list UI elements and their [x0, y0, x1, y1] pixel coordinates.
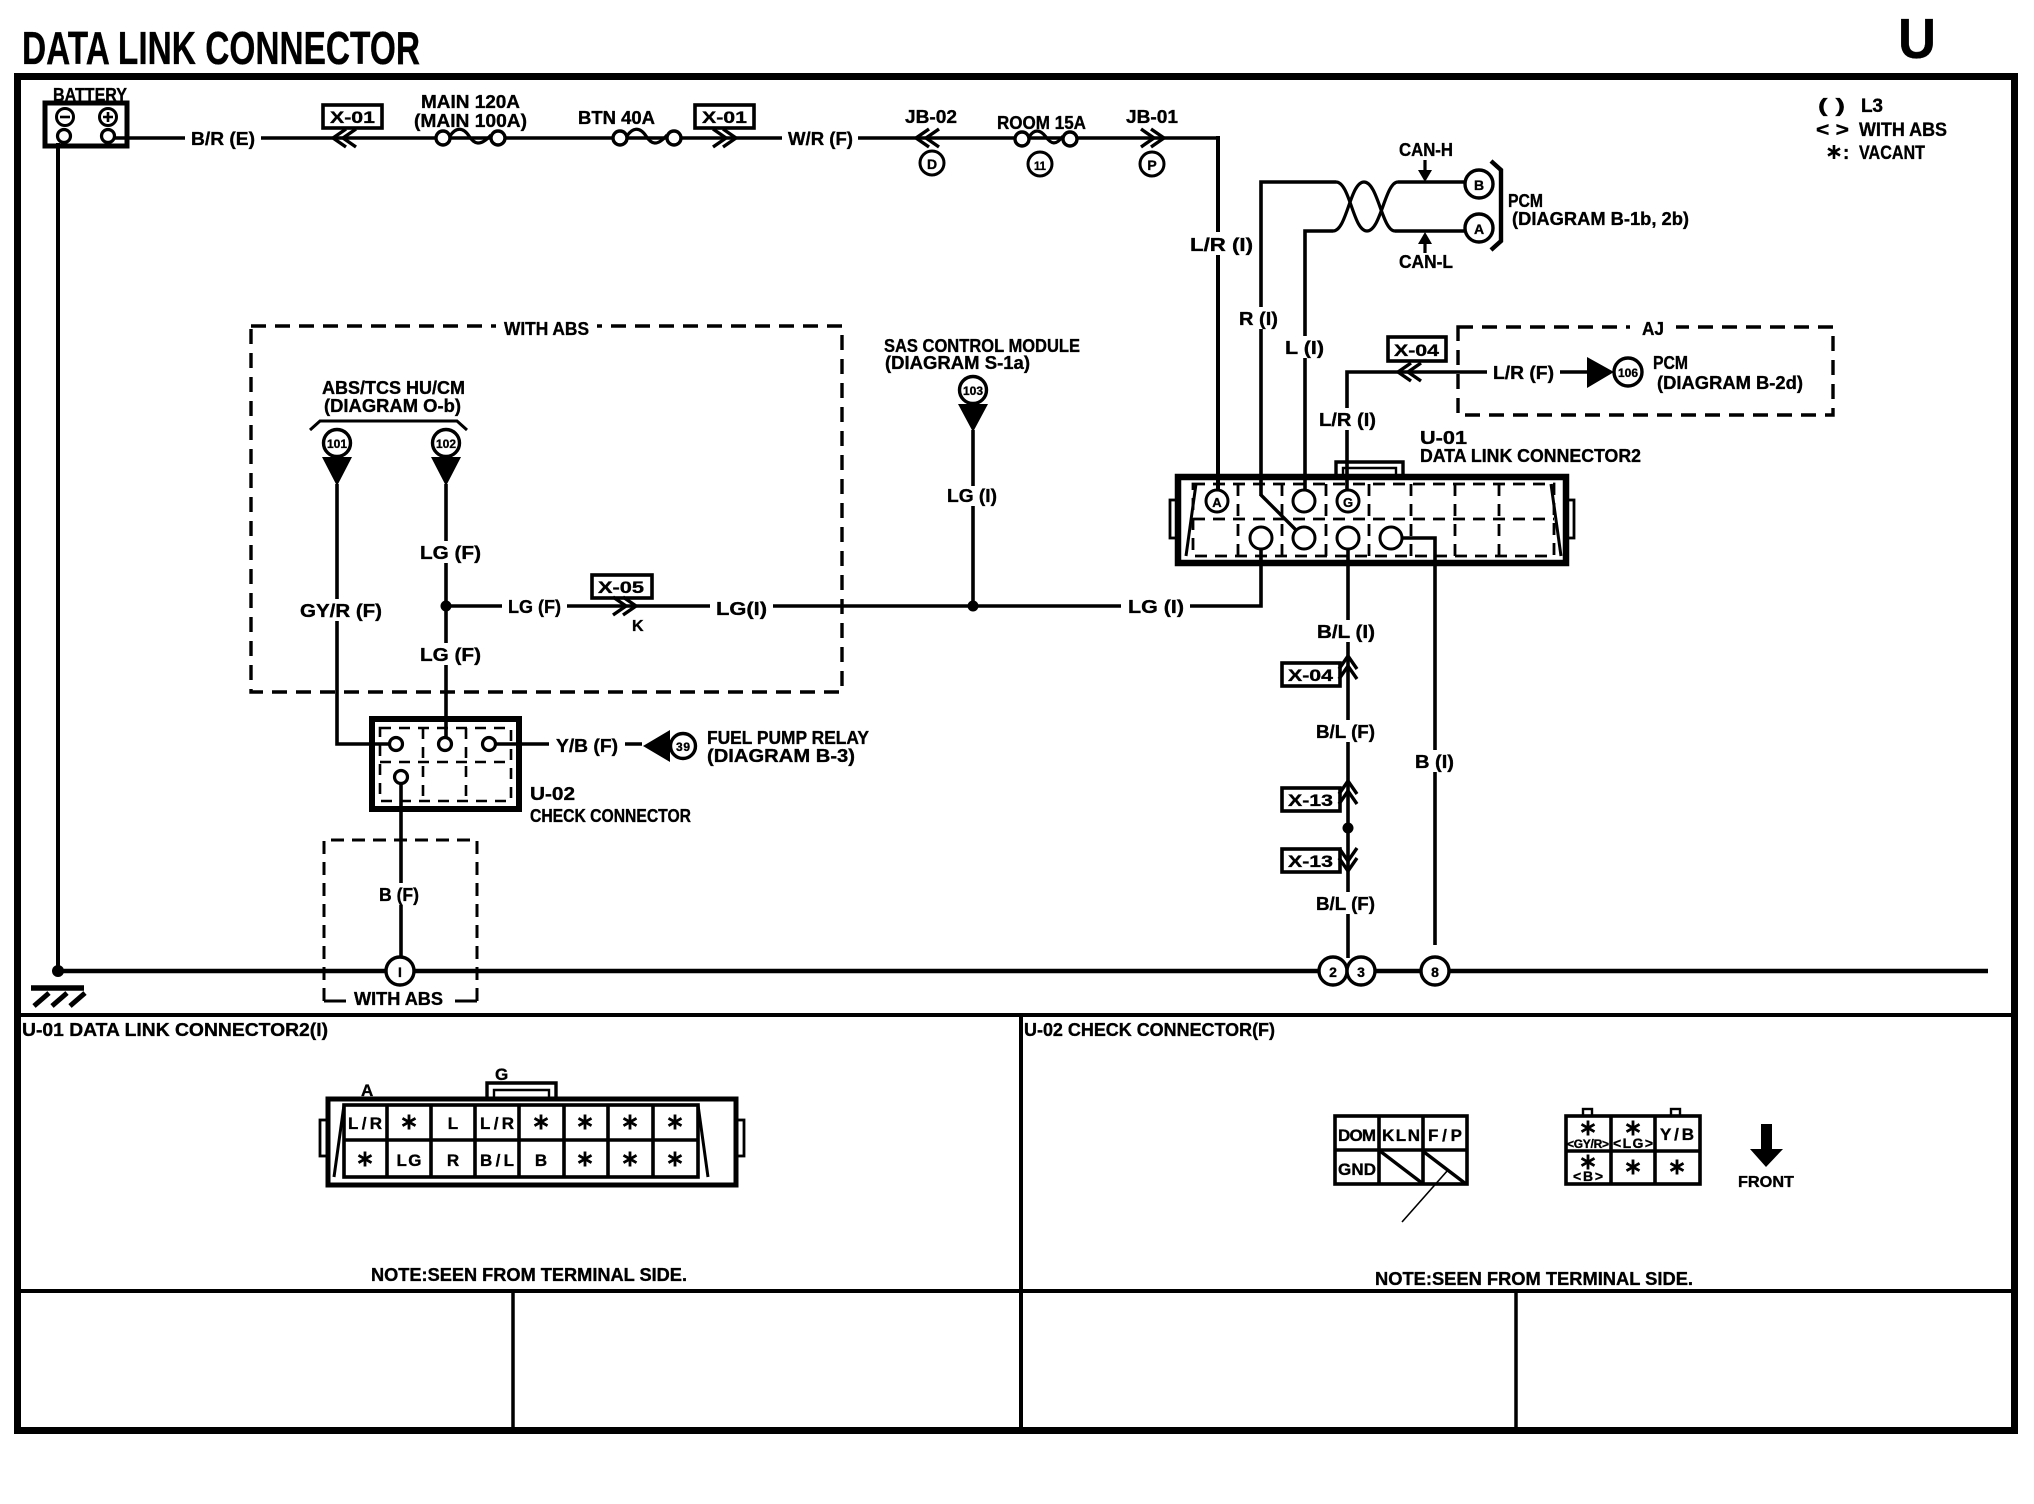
svg-text:X-01: X-01	[330, 108, 375, 127]
pin row1 c3	[1293, 490, 1315, 512]
terminal 2 ground	[1319, 957, 1347, 985]
svg-text:< >: < >	[1816, 120, 1849, 141]
svg-text:LG (F): LG (F)	[420, 543, 481, 563]
svg-text:DATA LINK CONNECTOR2: DATA LINK CONNECTOR2	[1420, 446, 1641, 466]
svg-text:LG (I): LG (I)	[1128, 597, 1184, 617]
svg-text:(DIAGRAM B-3): (DIAGRAM B-3)	[707, 746, 855, 766]
svg-text:AJ: AJ	[1642, 319, 1664, 339]
svg-text:JB-02: JB-02	[905, 107, 957, 127]
wire LG vertical	[444, 484, 448, 740]
svg-text:R (I): R (I)	[1239, 309, 1278, 329]
svg-text:LG (I): LG (I)	[947, 486, 997, 506]
svg-text:U-02: U-02	[530, 784, 575, 804]
bottom strip divider right	[1514, 1291, 1518, 1430]
svg-text:WITH ABS: WITH ABS	[504, 319, 589, 339]
PCM bracket	[1491, 161, 1501, 250]
svg-text:X-04: X-04	[1394, 341, 1440, 360]
svg-text:X-04: X-04	[1288, 666, 1334, 685]
svg-text:CHECK CONNECTOR: CHECK CONNECTOR	[530, 806, 691, 826]
U-02 pin 3	[483, 738, 496, 751]
wire LG from SAS	[971, 430, 975, 606]
U-01 pinout grid	[344, 1105, 698, 1177]
svg-text:U: U	[1898, 7, 1936, 71]
svg-text:FRONT: FRONT	[1738, 1174, 1794, 1191]
svg-text:PCM: PCM	[1508, 191, 1543, 211]
svg-text:BTN 40A: BTN 40A	[578, 108, 655, 128]
svg-text:<LG>: <LG>	[1613, 1135, 1653, 1151]
svg-text:(DIAGRAM S-1a): (DIAGRAM S-1a)	[885, 353, 1030, 373]
wire LG horizontal to DLC2	[446, 549, 1261, 606]
label L/R (I)	[1184, 232, 1259, 255]
U-01 pinout connector body	[328, 1099, 736, 1185]
diagonal wire R(I) to pin	[1261, 495, 1296, 530]
svg-text:106: 106	[1618, 366, 1638, 380]
svg-text:2: 2	[1329, 964, 1337, 980]
svg-text:( ): ( )	[1818, 96, 1845, 117]
row2 cell labels * LG R B/L B * * *	[359, 1152, 372, 1167]
svg-text:GY/R (F): GY/R (F)	[300, 601, 382, 621]
label L (I)	[1280, 336, 1330, 358]
label L/R (F)	[1487, 361, 1560, 383]
wire to PCM pin A	[1395, 229, 1465, 233]
cell *(GY/R)	[1582, 1121, 1595, 1136]
svg-text:G: G	[495, 1065, 508, 1084]
bracket under ABS label	[310, 421, 467, 430]
svg-text:B/L: B/L	[480, 1151, 514, 1170]
wire corner down to DLC pin A	[1216, 136, 1220, 492]
pin A	[1206, 490, 1228, 512]
svg-text:LG (F): LG (F)	[508, 597, 561, 617]
svg-text:(DIAGRAM B-1b, 2b): (DIAGRAM B-1b, 2b)	[1512, 209, 1689, 229]
svg-text:X-13: X-13	[1288, 852, 1333, 871]
wire battery negative to ground	[56, 143, 60, 971]
U-02 pin 4	[395, 771, 408, 784]
terminal 3 ground	[1347, 957, 1375, 985]
terminal I ground	[386, 957, 414, 985]
terminal 39	[671, 734, 696, 759]
connector U-01 body	[1178, 477, 1566, 563]
svg-text:B/L (F): B/L (F)	[1316, 894, 1375, 914]
svg-text:U-01 DATA LINK CONNECTOR2(I): U-01 DATA LINK CONNECTOR2(I)	[22, 1020, 328, 1040]
wire B/L down to ground	[1346, 549, 1350, 958]
connector X-01 second	[695, 105, 754, 128]
svg-text::: :	[1843, 143, 1849, 164]
svg-text:B: B	[1474, 177, 1484, 193]
ground bus wire	[58, 969, 1988, 973]
junction SAS LG	[968, 601, 979, 612]
svg-text:3: 3	[1357, 964, 1365, 980]
label LG (I) right of junction	[1121, 595, 1190, 618]
svg-text:<GY/R>: <GY/R>	[1567, 1137, 1609, 1151]
svg-text:FUEL PUMP RELAY: FUEL PUMP RELAY	[707, 728, 869, 748]
terminal 8 ground	[1421, 957, 1449, 985]
pin row2 c5	[1380, 527, 1402, 549]
connector X-13 upper	[1282, 788, 1340, 811]
svg-text:L/R (I): L/R (I)	[1190, 235, 1253, 255]
svg-text:Y/B (F): Y/B (F)	[556, 736, 618, 756]
terminal 101	[324, 430, 351, 457]
dashed box AJ	[1458, 327, 1833, 415]
label B/L (F)	[1310, 720, 1381, 742]
svg-text:W/R (F): W/R (F)	[788, 129, 853, 149]
bottom strip divider left	[511, 1291, 515, 1430]
svg-text:DATA LINK CONNECTOR: DATA LINK CONNECTOR	[22, 22, 420, 74]
svg-text:101: 101	[327, 437, 347, 451]
svg-text:L/R: L/R	[348, 1114, 382, 1133]
wire GY/R	[337, 484, 395, 744]
svg-text:CAN-L: CAN-L	[1399, 252, 1453, 272]
connector U-02 body	[372, 719, 519, 809]
svg-text:L/R (F): L/R (F)	[1493, 363, 1554, 383]
connector X-13 lower	[1282, 849, 1340, 872]
svg-text:LG (F): LG (F)	[420, 645, 481, 665]
svg-text:<B>: <B>	[1573, 1168, 1603, 1184]
terminal B	[1465, 170, 1493, 198]
svg-text:R: R	[447, 1151, 459, 1170]
panel vertical separator	[1019, 1015, 1023, 1430]
svg-text:CAN-H: CAN-H	[1399, 140, 1453, 160]
svg-text:L: L	[448, 1114, 458, 1133]
pin row2 c3	[1293, 527, 1315, 549]
svg-text:8: 8	[1431, 964, 1439, 980]
terminal A	[1465, 214, 1493, 242]
svg-text:Y/B: Y/B	[1660, 1125, 1694, 1144]
latch marks right grid	[1583, 1109, 1592, 1116]
svg-text:11: 11	[1034, 159, 1046, 173]
svg-text:NOTE:SEEN FROM TERMINAL SIDE.: NOTE:SEEN FROM TERMINAL SIDE.	[1375, 1269, 1693, 1289]
pin row2 c4	[1337, 527, 1359, 549]
connector U-01 end slants	[1186, 484, 1196, 556]
FRONT arrow	[1750, 1124, 1783, 1167]
svg-text:B/R (E): B/R (E)	[191, 129, 255, 149]
svg-text:B (I): B (I)	[1415, 752, 1454, 772]
svg-text:D: D	[927, 156, 937, 172]
cell *(LG)	[1627, 1121, 1640, 1136]
svg-text:WITH ABS: WITH ABS	[354, 989, 443, 1009]
label W/R (F)	[782, 127, 858, 149]
terminal 102	[433, 430, 460, 457]
svg-text:B (F): B (F)	[379, 885, 419, 905]
label L/R (I) vertical wire	[1313, 408, 1382, 430]
pin G	[1337, 490, 1359, 512]
vacant diagonal cell KLN row2	[1380, 1151, 1422, 1183]
svg-text:PCM: PCM	[1653, 353, 1688, 373]
svg-text:(DIAGRAM O-b): (DIAGRAM O-b)	[324, 396, 461, 416]
junction LG	[441, 601, 452, 612]
label LG (I) SAS wire	[941, 486, 1003, 506]
svg-text:I: I	[398, 964, 402, 980]
svg-text:39: 39	[676, 740, 690, 754]
dashed box WITH ABS	[251, 326, 842, 692]
svg-text:B: B	[535, 1151, 547, 1170]
U-01 pinout end slants	[334, 1105, 344, 1177]
connector X-04	[1388, 337, 1446, 361]
connector U-01 pin grid dashed	[1193, 484, 1554, 556]
junction B/L	[1343, 823, 1354, 834]
cell *(B)	[1582, 1155, 1595, 1170]
svg-text:ROOM 15A: ROOM 15A	[997, 113, 1086, 133]
svg-text:103: 103	[963, 384, 983, 398]
connector X-04 on B/L wire	[1282, 663, 1340, 686]
U-01 pinout latch	[487, 1083, 556, 1099]
cell * row2c2	[1627, 1160, 1640, 1175]
svg-text:MAIN 120A: MAIN 120A	[421, 92, 520, 112]
svg-text:X-13: X-13	[1288, 791, 1333, 810]
arrow to PCM	[1587, 357, 1614, 388]
terminal 106	[1614, 358, 1642, 386]
terminal 103	[960, 377, 987, 404]
svg-text:JB-01: JB-01	[1126, 107, 1178, 127]
svg-text:NOTE:SEEN FROM TERMINAL SIDE.: NOTE:SEEN FROM TERMINAL SIDE.	[371, 1265, 687, 1285]
wire B(F) to ground	[399, 784, 403, 957]
svg-text:DOM: DOM	[1338, 1126, 1376, 1145]
svg-text:F/P: F/P	[1428, 1126, 1462, 1145]
dashed box WITH ABS small	[324, 840, 477, 1001]
svg-text:GND: GND	[1338, 1160, 1376, 1179]
label LG (F) on wire	[502, 595, 567, 617]
svg-text:L (I): L (I)	[1285, 338, 1324, 358]
U-02 pinout grid right	[1566, 1116, 1700, 1184]
svg-text:B/L (F): B/L (F)	[1316, 722, 1375, 742]
svg-text:102: 102	[436, 437, 456, 451]
svg-text:X-01: X-01	[702, 108, 747, 127]
svg-text:A: A	[361, 1081, 373, 1100]
label B (I)	[1409, 750, 1460, 772]
svg-text:(DIAGRAM B-2d): (DIAGRAM B-2d)	[1657, 373, 1803, 393]
U-02 pin 2	[439, 738, 452, 751]
label B/L (I)	[1310, 620, 1381, 642]
U-02 pinout grid left	[1335, 1116, 1467, 1184]
svg-text:B/L (I): B/L (I)	[1317, 622, 1375, 642]
twisted pair	[1336, 182, 1398, 231]
svg-text:L/R (I): L/R (I)	[1319, 410, 1376, 430]
svg-text:ABS/TCS HU/CM: ABS/TCS HU/CM	[322, 378, 465, 398]
arrow to fuel pump relay	[643, 730, 670, 762]
leader line	[1402, 1170, 1448, 1222]
label B/R (E)	[185, 126, 261, 148]
pin row2 c2	[1250, 527, 1272, 549]
panel top separator	[14, 1013, 2014, 1017]
svg-text:L3: L3	[1861, 96, 1883, 117]
ground junction	[52, 965, 64, 977]
label LG(I) on wire	[710, 597, 773, 619]
wire B to ground	[1402, 538, 1435, 945]
wire battery B/R feed	[115, 136, 1218, 140]
connector X-05	[592, 575, 652, 598]
U-02 pin 1	[390, 738, 403, 751]
wire L/R(F) to PCM 106	[1347, 372, 1587, 490]
label R (I)	[1234, 307, 1284, 329]
ground symbol	[31, 985, 84, 991]
svg-text:L/R: L/R	[480, 1114, 514, 1133]
svg-text:(MAIN 100A): (MAIN 100A)	[414, 111, 527, 131]
svg-text:LG(I): LG(I)	[716, 599, 767, 619]
svg-text:K: K	[632, 618, 644, 635]
svg-text:U-01: U-01	[1420, 428, 1467, 448]
svg-text:LG: LG	[397, 1151, 422, 1170]
svg-text:KLN: KLN	[1382, 1126, 1420, 1145]
wire Y/B to fuel pump relay	[496, 742, 642, 745]
connector X-01	[323, 105, 382, 128]
svg-text:U-02 CHECK CONNECTOR(F): U-02 CHECK CONNECTOR(F)	[1024, 1020, 1275, 1040]
panel middle separator	[14, 1289, 2014, 1293]
svg-text:VACANT: VACANT	[1859, 143, 1925, 164]
svg-text:A: A	[1212, 495, 1222, 510]
wire L(I) CAN-L	[1305, 231, 1333, 490]
svg-text:WITH ABS: WITH ABS	[1859, 120, 1947, 141]
wire to PCM pin B	[1398, 180, 1465, 184]
svg-text:X-05: X-05	[598, 578, 644, 597]
label B/L (F) lower	[1310, 892, 1381, 914]
legend *: VACANT	[1828, 145, 1840, 159]
vacant diagonal cell F/P row2	[1424, 1152, 1466, 1184]
wire R(I) CAN-H	[1261, 182, 1336, 496]
connector U-01 latch	[1336, 462, 1403, 477]
cell * row2c3	[1671, 1160, 1684, 1175]
svg-text:P: P	[1147, 157, 1156, 173]
svg-text:G: G	[1343, 495, 1353, 510]
svg-text:A: A	[1474, 221, 1484, 237]
